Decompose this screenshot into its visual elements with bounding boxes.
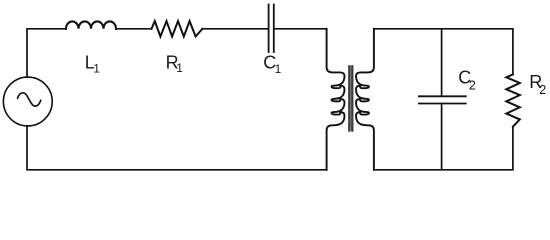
wire L1 to R1: [116, 28, 152, 30]
wire secondary top to C2 node: [374, 28, 442, 30]
wire C2 branch upper: [441, 29, 443, 96]
svg-text:1: 1: [176, 61, 183, 75]
wire R1 to C1: [202, 28, 268, 30]
svg-text:1: 1: [93, 61, 100, 75]
wire C2 branch lower: [441, 104, 443, 170]
wire top-left from source to L1: [27, 29, 66, 77]
svg-text:1: 1: [275, 62, 282, 76]
svg-text:2: 2: [539, 83, 546, 97]
transformer core bar right: [351, 66, 353, 130]
wire C2 node to R2 top: [442, 29, 513, 75]
transformer primary winding: [327, 29, 345, 170]
AC source V1 circle: [3, 77, 52, 126]
transformer secondary winding: [356, 29, 374, 170]
AC source sine wave: [18, 93, 41, 106]
inductor L1: [66, 21, 116, 28]
svg-text:2: 2: [469, 78, 476, 92]
wire C1 to transformer primary: [275, 28, 327, 30]
resistor R1: [152, 21, 203, 36]
resistor R2: [506, 74, 520, 126]
capacitor C1: [269, 5, 274, 53]
wire bottom-left loop: [27, 126, 326, 170]
wire R2 bottom and right loop bottom: [374, 127, 513, 170]
transformer core bar left: [348, 66, 350, 130]
transformer core fill: [348, 66, 353, 130]
capacitor C2: [419, 96, 466, 103]
